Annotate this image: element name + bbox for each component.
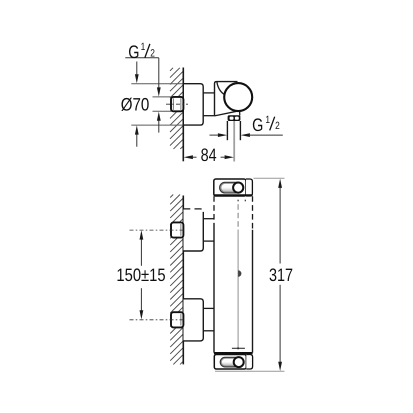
dimension G1/2 outlet: left arrow with tail <box>210 133 228 137</box>
label G1/2 (outlet thread) <box>252 114 280 135</box>
shower outlet pipe (G1/2) <box>227 121 240 140</box>
upper inlet axis centerline <box>130 229 186 231</box>
inlet axis centerline (side view) <box>166 103 188 105</box>
extension line, body top (for 317) <box>254 177 285 179</box>
thermostat body tube fill <box>214 196 253 352</box>
label 150±15 (connection spacing) <box>116 265 165 285</box>
label G1/2 (inlet thread) <box>128 41 155 62</box>
hidden edge dash of handle end cap <box>244 200 246 202</box>
extension line, escutcheon bottom edge (for Ø70) <box>131 124 183 126</box>
dimension 84: right arrow at outlet axis <box>221 155 234 159</box>
lower inlet axis centerline <box>130 319 186 321</box>
dimension G1/2 inlet: upper arrow <box>157 87 161 96</box>
union nut (side view) <box>171 97 183 111</box>
wall face line (side view) <box>182 68 184 162</box>
cartridge axis centerline: main part <box>237 230 239 349</box>
dimension G1/2 inlet: lower arrow with tail <box>157 112 161 133</box>
extension line, nut bottom edge (for G1/2 inlet) <box>153 110 172 112</box>
body tube left edge (dashed adjustable part) <box>213 196 215 223</box>
svg-text:317: 317 <box>269 265 293 285</box>
svg-text:84: 84 <box>201 145 217 165</box>
lower union nut (front view) <box>171 312 183 327</box>
outlet axis centerline <box>233 121 235 162</box>
cartridge axis centerline: top dot <box>237 200 239 202</box>
wall face line (front/top view) <box>182 196 184 365</box>
svg-text:G: G <box>252 115 263 135</box>
lower connection neck <box>203 308 214 330</box>
dimension G1/2 inlet: leader line from label <box>125 58 159 88</box>
dimension 150±15: line with end arrows <box>140 230 144 319</box>
wall section (front/top view) hatching <box>170 195 183 365</box>
body tube left edge (solid) <box>213 223 215 353</box>
wall section (side view) hatching <box>170 68 183 149</box>
svg-text:2: 2 <box>150 47 155 59</box>
escutcheon (side view) <box>183 84 203 125</box>
upper inlet escutcheon <box>183 209 203 251</box>
dimension Ø70: lower arrow with tail <box>135 125 139 146</box>
extension line, body bottom (for 317) <box>215 370 285 372</box>
shower outlet nut <box>228 115 241 121</box>
thermostat body bracket (side view) <box>215 82 240 116</box>
body tube right edge (solid) <box>252 230 254 353</box>
cartridge axis centerline: dashed part <box>237 204 239 229</box>
center cross mark at axis end <box>232 347 245 349</box>
dimension 317: line with end arrows <box>278 179 282 371</box>
svg-text:Ø70: Ø70 <box>121 94 150 114</box>
svg-text:2: 2 <box>275 120 280 132</box>
dimension 84: left arrow at wall <box>184 155 197 159</box>
label 317 (total height) <box>269 265 293 285</box>
label 84 (wall to outlet distance) <box>201 145 217 165</box>
upper connection neck <box>203 219 214 241</box>
label Ø70 (escutcheon diameter) <box>121 94 150 114</box>
top shut-off handle housing <box>214 179 253 196</box>
dimension Ø70: upper arrow with tail <box>135 62 139 84</box>
safety stop button on axis <box>238 270 241 277</box>
body tube right edge (dashed adjustable part) <box>252 196 254 230</box>
lower inlet escutcheon <box>183 299 203 341</box>
bottom temperature handle housing <box>214 353 253 369</box>
svg-text:1: 1 <box>265 114 270 126</box>
svg-text:1: 1 <box>141 41 146 53</box>
extension line, escutcheon top edge (for Ø70) <box>131 83 183 85</box>
top handle metal grip <box>220 182 244 193</box>
upper union nut (front view) <box>171 222 183 237</box>
svg-text:150±15: 150±15 <box>116 265 165 285</box>
connection neck (side view) <box>203 93 214 116</box>
svg-text:G: G <box>128 42 139 62</box>
bottom handle metal grip <box>220 357 244 367</box>
dimension G1/2 outlet: right arrow with tail to label <box>241 133 283 137</box>
temperature handle knob (side view circle) <box>224 83 252 111</box>
extension line, nut top edge (for G1/2 inlet) <box>153 96 172 98</box>
